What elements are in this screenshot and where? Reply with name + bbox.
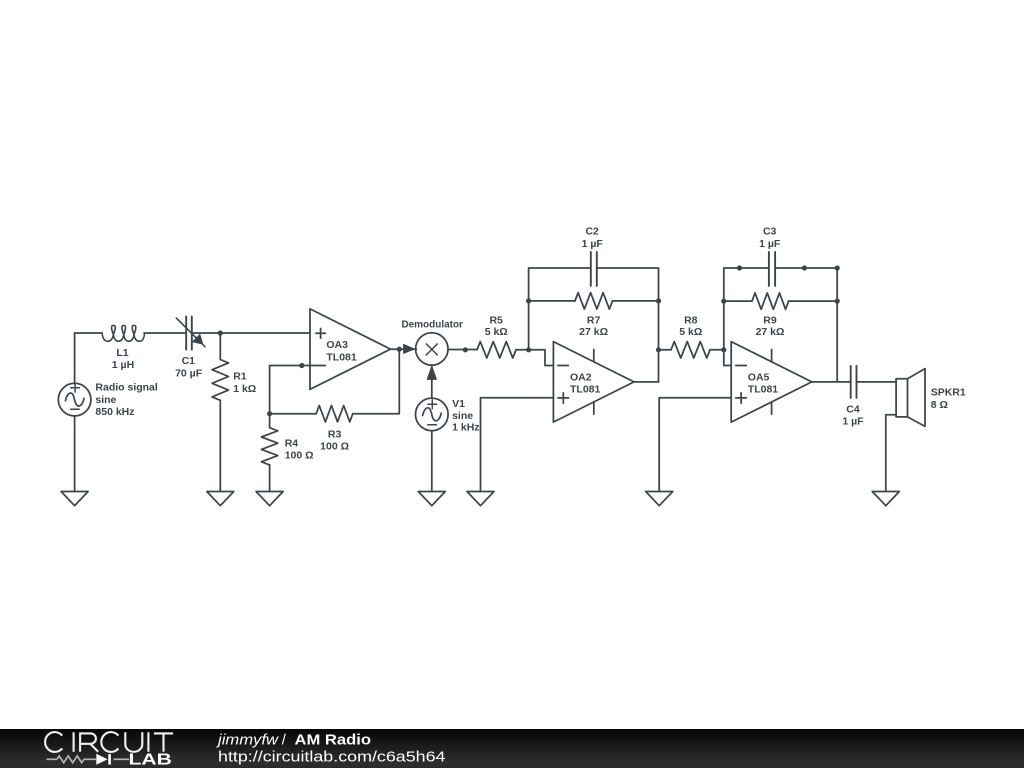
node after demodulator [463, 347, 468, 352]
wire OA5 plus input to ground [659, 398, 731, 492]
node R9 right [835, 299, 840, 304]
svg-text:SPKR1: SPKR1 [931, 387, 966, 399]
svg-text:OA3: OA3 [326, 339, 348, 351]
wire C1 to op-amp [192, 332, 310, 334]
svg-text:R1: R1 [233, 371, 247, 383]
inductor L1 [102, 325, 144, 341]
svg-text:R9: R9 [763, 314, 777, 326]
wire source top to rail [74, 333, 76, 383]
node C3 right [802, 265, 807, 270]
svg-text:R5: R5 [489, 314, 503, 326]
logo diode triangle [96, 754, 107, 765]
svg-text:LAB: LAB [129, 752, 172, 768]
node R5 / feedback [526, 347, 531, 352]
svg-text:Radio signal: Radio signal [95, 381, 158, 393]
ground (source) [61, 492, 88, 506]
svg-text:1 µF: 1 µF [582, 238, 604, 250]
capacitor C2 [591, 252, 597, 286]
node at OA3 output [397, 347, 402, 352]
svg-text:jimmyfw: jimmyfw [216, 732, 280, 748]
svg-text:OA5: OA5 [748, 372, 770, 384]
arrow into demodulator [404, 344, 415, 353]
svg-text:1 µF: 1 µF [759, 238, 781, 250]
wire OA5 output to C4 [812, 381, 851, 383]
wire L1 to C1 [144, 332, 186, 334]
node R7 right [656, 298, 661, 303]
svg-text:R7: R7 [587, 314, 601, 326]
svg-text:5 kΩ: 5 kΩ [679, 326, 702, 338]
wire top rail left [75, 332, 102, 334]
node junction at R1 top [218, 330, 223, 335]
svg-text:C2: C2 [585, 226, 599, 238]
logo resistor-diode line [47, 756, 130, 763]
wire V1 bottom [431, 431, 433, 492]
logo CIRCUIT lettering [45, 732, 173, 752]
wire C3 right [775, 268, 837, 382]
ground (V1) [418, 492, 445, 506]
node top right corner [835, 265, 840, 270]
svg-text:TL081: TL081 [570, 384, 601, 396]
voltage source Radio signal (sine 850 kHz) [58, 383, 91, 416]
wire OA3 minus input from R4 node [270, 366, 326, 414]
node C3 left [737, 265, 742, 270]
node R8 right [721, 347, 726, 352]
svg-text:1 kHz: 1 kHz [452, 422, 479, 434]
svg-text:V1: V1 [452, 398, 465, 410]
capacitor C4 [851, 366, 857, 398]
wire demodulator bottom input [431, 365, 433, 398]
voltage source V1 (sine 1 kHz) [416, 398, 449, 431]
op-amp OA2 [553, 342, 634, 423]
svg-text:5 kΩ: 5 kΩ [485, 326, 508, 338]
ground (OA5 plus) [646, 492, 673, 506]
speaker SPKR1 [896, 369, 925, 427]
node R8 left [656, 347, 661, 352]
arrow into demodulator bottom [427, 366, 436, 379]
svg-text:70 µF: 70 µF [175, 367, 203, 379]
resistor R9 [724, 293, 837, 309]
svg-text:C4: C4 [846, 403, 860, 415]
capacitor C1 (variable) [176, 316, 205, 349]
wire C4 to speaker [857, 381, 897, 383]
node at OA3 minus input [299, 363, 304, 368]
svg-text:100 Ω: 100 Ω [285, 450, 314, 462]
ground (speaker) [872, 492, 899, 506]
ground (R1) [207, 492, 234, 506]
ground (OA2 plus) [467, 492, 494, 506]
svg-text:R8: R8 [684, 314, 698, 326]
svg-text:http://circuitlab.com/c6a5h64: http://circuitlab.com/c6a5h64 [218, 748, 446, 765]
svg-text:AM Radio: AM Radio [295, 732, 372, 748]
svg-text:100 Ω: 100 Ω [320, 441, 349, 453]
svg-text:sine: sine [452, 410, 473, 422]
wire OA5 feedback left vertical [724, 268, 769, 350]
resistor R8 [659, 342, 724, 358]
resistor R5 [477, 342, 529, 358]
svg-text:1 µF: 1 µF [842, 416, 864, 428]
svg-text:TL081: TL081 [748, 384, 779, 396]
wire C2 right to right vertical [597, 268, 659, 382]
wire OA3 output [391, 348, 417, 350]
svg-text:27 kΩ: 27 kΩ [579, 326, 608, 338]
wire to OA5 minus input [724, 350, 731, 366]
resistor R1 [212, 333, 228, 492]
multiplier Demodulator [416, 333, 448, 365]
svg-text:TL081: TL081 [326, 351, 357, 363]
resistor R7 [529, 293, 659, 309]
svg-text:OA2: OA2 [570, 372, 592, 384]
node at R4/R3 junction [267, 411, 272, 416]
capacitor C3 [769, 252, 775, 286]
wire source bottom [74, 416, 76, 492]
svg-text:Demodulator: Demodulator [401, 319, 463, 331]
wire OA2 output [634, 381, 659, 383]
wire to OA2 minus input [529, 350, 554, 366]
svg-text:1 kΩ: 1 kΩ [233, 383, 256, 395]
ground (R4) [256, 492, 283, 506]
resistor R3 with feedback wire [270, 349, 400, 422]
svg-text:850 kHz: 850 kHz [95, 406, 134, 418]
resistor R4 [261, 414, 277, 492]
svg-text:R3: R3 [328, 428, 342, 440]
svg-text:C1: C1 [182, 355, 196, 367]
node R9 left [721, 299, 726, 304]
wire demodulator output [448, 349, 477, 351]
svg-text:sine: sine [95, 394, 116, 406]
op-amp OA3 [310, 309, 391, 390]
banner bar [0, 729, 1024, 768]
wire speaker bottom to ground [886, 415, 896, 492]
logo diode bar [108, 754, 111, 765]
svg-text:C3: C3 [763, 226, 777, 238]
svg-text:27 kΩ: 27 kΩ [756, 326, 785, 338]
svg-text:R4: R4 [285, 437, 299, 449]
svg-text:L1: L1 [116, 347, 128, 359]
wire OA2 plus input to ground [481, 398, 554, 492]
svg-text:1 µH: 1 µH [112, 359, 134, 371]
wire OA2 feedback left vertical [529, 268, 591, 350]
op-amp OA5 [731, 342, 812, 423]
node R7 left [526, 298, 531, 303]
svg-text:8 Ω: 8 Ω [931, 399, 948, 411]
